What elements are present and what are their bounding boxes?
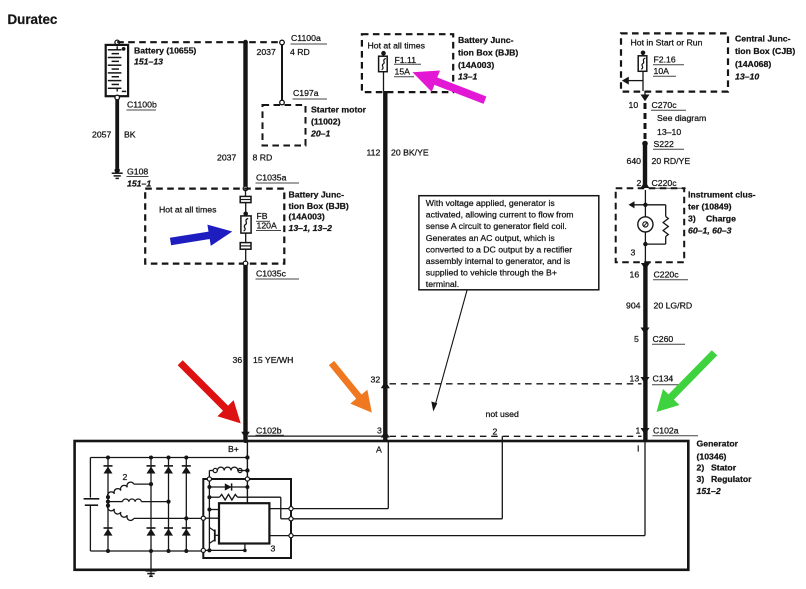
svg-text:C1035c: C1035c	[256, 269, 287, 279]
svg-text:151–2: 151–2	[697, 486, 721, 496]
svg-text:32: 32	[371, 375, 381, 385]
svg-text:With voltage applied, generato: With voltage applied, generator is	[426, 198, 556, 208]
svg-text:2037: 2037	[217, 153, 236, 163]
svg-text:F1.11: F1.11	[395, 55, 417, 65]
svg-text:A: A	[376, 445, 382, 455]
svg-text:Hot at all times: Hot at all times	[368, 41, 426, 51]
svg-text:tion Box (BJB): tion Box (BJB)	[289, 201, 349, 211]
svg-text:13: 13	[630, 374, 640, 384]
svg-text:(10346): (10346)	[697, 452, 727, 462]
svg-text:Generator: Generator	[697, 439, 739, 449]
svg-text:2037: 2037	[257, 47, 276, 57]
svg-text:Battery Junc-: Battery Junc-	[289, 190, 345, 200]
svg-text:120A: 120A	[257, 220, 277, 230]
svg-text:4 RD: 4 RD	[290, 47, 310, 57]
svg-text:60–1, 60–3: 60–1, 60–3	[688, 226, 732, 236]
svg-text:3: 3	[271, 544, 276, 554]
svg-text:13–1: 13–1	[458, 72, 477, 82]
svg-text:15 YE/WH: 15 YE/WH	[253, 355, 293, 365]
svg-text:See diagram: See diagram	[657, 113, 706, 123]
svg-text:112: 112	[367, 148, 381, 158]
svg-text:BK: BK	[124, 130, 136, 140]
svg-text:13–10: 13–10	[657, 127, 681, 137]
svg-text:2057: 2057	[92, 130, 111, 140]
svg-text:B+: B+	[228, 444, 239, 454]
svg-text:C260: C260	[653, 334, 674, 344]
svg-text:15A: 15A	[395, 67, 411, 77]
svg-text:13–10: 13–10	[735, 71, 759, 81]
svg-text:G108: G108	[127, 167, 148, 177]
svg-text:Regulator: Regulator	[711, 474, 752, 484]
svg-text:2: 2	[493, 427, 498, 437]
svg-text:F2.16: F2.16	[654, 55, 676, 65]
svg-text:Starter motor: Starter motor	[311, 105, 367, 115]
svg-text:C220c: C220c	[654, 270, 680, 280]
svg-text:3: 3	[377, 426, 382, 436]
svg-text:tion Box (BJB): tion Box (BJB)	[458, 48, 518, 58]
svg-text:Instrument clus-: Instrument clus-	[688, 190, 756, 200]
svg-text:2: 2	[123, 472, 128, 482]
svg-text:36: 36	[233, 355, 243, 365]
svg-text:C220c: C220c	[652, 178, 678, 188]
svg-text:20 LG/RD: 20 LG/RD	[654, 301, 693, 311]
svg-text:Stator: Stator	[711, 463, 737, 473]
svg-text:Battery Junc-: Battery Junc-	[458, 35, 514, 45]
svg-text:C102a: C102a	[653, 426, 679, 436]
svg-text:C270c: C270c	[652, 100, 678, 110]
svg-text:(11002): (11002)	[311, 117, 341, 127]
svg-text:not used: not used	[486, 409, 519, 419]
svg-text:assembly internal to generator: assembly internal to generator, and is	[426, 256, 571, 266]
svg-text:3: 3	[631, 248, 636, 258]
svg-text:20 BK/YE: 20 BK/YE	[391, 148, 429, 158]
svg-text:5: 5	[634, 334, 639, 344]
svg-text:13–1, 13–2: 13–1, 13–2	[289, 223, 333, 233]
svg-text:Battery (10655): Battery (10655)	[134, 46, 196, 56]
svg-text:20–1: 20–1	[310, 129, 330, 139]
svg-text:ter (10849): ter (10849)	[688, 202, 732, 212]
svg-text:C102b: C102b	[256, 426, 282, 436]
svg-text:Central Junc-: Central Junc-	[735, 34, 791, 44]
svg-text:2): 2)	[697, 463, 705, 473]
svg-text:3): 3)	[688, 214, 696, 224]
svg-text:C1035a: C1035a	[256, 173, 287, 183]
svg-text:Hot in Start or Run: Hot in Start or Run	[631, 38, 703, 48]
svg-text:C134: C134	[653, 374, 674, 384]
svg-text:16: 16	[630, 270, 640, 280]
svg-text:151–1: 151–1	[127, 179, 151, 189]
svg-text:I: I	[637, 444, 639, 454]
svg-text:10A: 10A	[654, 66, 670, 76]
svg-text:1: 1	[636, 426, 641, 436]
svg-text:151–13: 151–13	[134, 57, 163, 67]
svg-text:(14A068): (14A068)	[735, 59, 771, 69]
svg-text:supplied to vehicle through th: supplied to vehicle through the B+	[426, 268, 557, 278]
svg-text:904: 904	[626, 301, 641, 311]
svg-text:(14A003): (14A003)	[289, 212, 325, 222]
svg-text:Hot at all times: Hot at all times	[159, 205, 217, 215]
svg-text:terminal.: terminal.	[426, 279, 459, 289]
svg-text:20 RD/YE: 20 RD/YE	[652, 156, 691, 166]
svg-text:640: 640	[627, 156, 642, 166]
svg-text:C1100b: C1100b	[127, 100, 157, 110]
svg-text:C1100a: C1100a	[291, 33, 321, 43]
svg-text:converted to a DC output by a: converted to a DC output by a rectifier	[426, 244, 572, 254]
svg-text:activated, allowing current to: activated, allowing current to flow from	[426, 210, 574, 220]
svg-text:Charge: Charge	[706, 214, 736, 224]
svg-text:8 RD: 8 RD	[253, 153, 273, 163]
svg-text:2: 2	[637, 178, 642, 188]
svg-text:3): 3)	[697, 474, 705, 484]
svg-text:C197a: C197a	[293, 88, 319, 98]
svg-text:S222: S222	[654, 139, 674, 149]
svg-text:Generates an AC output, which: Generates an AC output, which is	[426, 233, 556, 243]
svg-text:sense A circuit to generator f: sense A circuit to generator field coil.	[426, 221, 567, 231]
svg-text:tion Box (CJB): tion Box (CJB)	[735, 46, 795, 56]
svg-text:Duratec: Duratec	[8, 12, 58, 27]
svg-text:10: 10	[629, 100, 639, 110]
svg-text:(14A003): (14A003)	[458, 60, 494, 70]
